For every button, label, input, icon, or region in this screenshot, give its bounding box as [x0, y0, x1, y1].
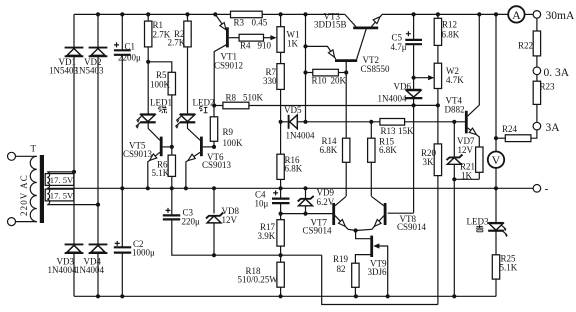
LED LED2 [175, 114, 195, 128]
svg-text:30mA: 30mA [546, 10, 575, 22]
wire C4 bottom to VT7 base [281, 213, 333, 215]
wire lower return [322, 255, 438, 304]
svg-text:3DD15B: 3DD15B [314, 20, 347, 30]
svg-text:6.8K: 6.8K [379, 145, 397, 155]
svg-text:1N5403: 1N5403 [75, 66, 104, 76]
diode VD5 [281, 115, 306, 129]
node bottom rail VD7 [452, 294, 456, 298]
svg-text:17. 5V: 17. 5V [50, 190, 74, 200]
svg-text:510/0.25W: 510/0.25W [238, 275, 279, 285]
resistor R23 [536, 75, 538, 82]
diode VD6 [405, 90, 422, 98]
svg-text:82: 82 [337, 264, 346, 274]
wire primary bottom lead [16, 221, 37, 223]
zener VD9 [298, 188, 314, 213]
node VT5 base R6 junction [170, 145, 174, 149]
transformer T primary terminal top [8, 152, 16, 160]
svg-text:CS9014: CS9014 [303, 226, 333, 236]
diode VD7 zener [447, 122, 463, 180]
terminal minus [533, 185, 541, 193]
label 17.5V upper boxed [45, 174, 74, 186]
node rail C1 [120, 12, 124, 16]
svg-text:1K: 1K [287, 39, 299, 49]
LED LED1 [136, 114, 156, 128]
svg-text:R10: R10 [312, 76, 328, 86]
svg-text:1000μ: 1000μ [132, 248, 155, 258]
resistor R22 [536, 18, 538, 31]
svg-text:CS9012: CS9012 [214, 61, 243, 71]
svg-text:VD5: VD5 [284, 105, 302, 115]
wire ammeter to 30mA terminal [525, 13, 534, 15]
potentiometer W2 [434, 63, 441, 88]
transistor VT8 [356, 196, 414, 230]
transformer T primary winding [30, 156, 37, 221]
resistor R1 [147, 14, 149, 21]
transistor VT3 [345, 14, 382, 28]
svg-text:100K: 100K [150, 80, 171, 90]
svg-text:CS9013: CS9013 [123, 149, 153, 159]
wire primary top lead [16, 155, 37, 157]
node R12 rail [436, 12, 440, 16]
node center rail VT6em [184, 186, 188, 190]
node center rail R16C4 [279, 186, 283, 190]
potentiometer W1 [280, 14, 282, 26]
diode VD3 [65, 244, 84, 253]
wire R21 bottom link [454, 178, 479, 180]
svg-text:R1: R1 [153, 20, 164, 30]
svg-text:17. 5V: 17. 5V [50, 175, 74, 185]
svg-text:3A: 3A [546, 122, 561, 134]
svg-text:1K: 1K [461, 171, 473, 181]
label red char [199, 107, 207, 113]
node bottom tap junction [96, 203, 100, 207]
svg-text:R19: R19 [333, 254, 349, 264]
transformer T core [40, 155, 44, 223]
capacitor C4 [272, 188, 290, 213]
svg-text:12V: 12V [222, 215, 238, 225]
transistor VT7 [334, 196, 356, 230]
resistor R25 [495, 231, 497, 255]
svg-text:R24: R24 [502, 124, 518, 134]
svg-text:R3: R3 [234, 18, 245, 28]
wire VD7 node to bottom rail [453, 179, 455, 296]
node V bottom rail [494, 186, 498, 190]
svg-text:910: 910 [258, 41, 272, 51]
transformer T secondary winding [47, 172, 49, 205]
svg-text:20K: 20K [331, 76, 347, 86]
resistor R5 [148, 62, 172, 73]
svg-text:CS9013: CS9013 [202, 160, 232, 170]
svg-text:-: - [545, 184, 549, 196]
svg-text:A: A [512, 8, 521, 22]
svg-text:2.7K: 2.7K [168, 38, 186, 48]
resistor R18 [280, 255, 282, 262]
resistor R19 [352, 263, 359, 287]
node C4 bottom [279, 212, 283, 216]
node R15 top [369, 120, 373, 124]
svg-text:4.7μ: 4.7μ [391, 42, 407, 52]
wire VT2 emitter column [305, 14, 307, 121]
resistor R4 [239, 34, 263, 41]
diode VD2 [89, 48, 108, 57]
resistor R12 [437, 14, 439, 18]
svg-text:5.1K: 5.1K [500, 263, 518, 273]
wire secondary top tap [48, 171, 75, 173]
node bottom rail C2 [120, 294, 124, 298]
diode VD1 [65, 48, 84, 57]
svg-text:6.8K: 6.8K [320, 145, 338, 155]
resistor R21 [476, 147, 483, 172]
capacitor C1 [114, 14, 131, 188]
svg-text:R22: R22 [518, 41, 533, 51]
node R5 branch [146, 60, 150, 64]
svg-text:LED1: LED1 [150, 98, 172, 108]
wire W2 wiper [414, 77, 430, 79]
svg-text:100K: 100K [223, 138, 244, 148]
capacitor C2 [114, 188, 131, 296]
node C5 rail [412, 12, 416, 16]
node rail VD2 [96, 12, 100, 16]
diode VD4 [89, 244, 108, 253]
resistor R9 [213, 106, 215, 147]
svg-text:R12: R12 [442, 20, 457, 30]
transistor VT1 [214, 14, 239, 105]
node center rail R6C3 [170, 186, 174, 190]
resistor R8 [214, 105, 223, 107]
svg-text:R5: R5 [156, 70, 167, 80]
svg-text:R8: R8 [226, 93, 237, 103]
svg-text:15K: 15K [398, 126, 414, 136]
node bottom rail R19 [354, 294, 358, 298]
resistor R13 [380, 119, 405, 126]
node W2 bottom junction [436, 103, 440, 107]
node R10 left [303, 70, 307, 74]
svg-text:2200μ: 2200μ [118, 52, 141, 62]
node VD8 bottom [212, 253, 216, 257]
svg-text:510K: 510K [243, 93, 264, 103]
svg-text:V: V [492, 153, 501, 167]
resistor R16 [280, 122, 282, 154]
transistor VT5 [148, 122, 172, 188]
terminal 3A [533, 122, 541, 130]
wire VD2 column [97, 14, 99, 296]
svg-text:LED2: LED2 [193, 98, 215, 108]
svg-text:CS9014: CS9014 [397, 222, 427, 232]
svg-text:5.1K: 5.1K [152, 168, 170, 178]
wire top rail left segment [74, 13, 231, 15]
node W2 wiper junction [412, 76, 416, 80]
node center rail VD8 [212, 186, 216, 190]
svg-text:6.2V: 6.2V [317, 197, 335, 207]
node VT6 base R9 junction [212, 145, 216, 149]
wire top rail mid segment [262, 13, 345, 15]
wire C3 bottom to R17 node [172, 219, 322, 255]
ammeter A [508, 6, 524, 22]
svg-text:R13: R13 [381, 126, 397, 136]
svg-text:1N4004: 1N4004 [75, 265, 104, 275]
svg-text:C1: C1 [125, 42, 136, 52]
transistor VT4 [466, 14, 479, 147]
wire VD6 node to W2 bottom [414, 104, 438, 106]
transistor VT9 [355, 231, 387, 297]
svg-text:CS8550: CS8550 [361, 64, 391, 74]
node R8 left junction [212, 103, 216, 107]
resistor R24 [531, 130, 537, 138]
svg-text:3.9K: 3.9K [258, 231, 276, 241]
node center rail VD9 [303, 186, 307, 190]
node VT2 column rail [303, 12, 307, 16]
svg-text:1N4004: 1N4004 [378, 94, 407, 104]
node emitter common [354, 228, 358, 232]
node VD7 top junction [452, 120, 456, 124]
svg-text:3K: 3K [423, 157, 435, 167]
node V column rail [494, 12, 498, 16]
voltmeter column wire [495, 14, 497, 223]
node bottom rail R18 [279, 294, 283, 298]
svg-text:10μ: 10μ [255, 199, 269, 209]
transistor VT6 [186, 122, 214, 188]
svg-text:4.7K: 4.7K [446, 75, 464, 85]
terminal 30mA [533, 11, 541, 19]
svg-text:330: 330 [263, 76, 277, 86]
node VT2 emitter junction [303, 44, 307, 48]
svg-text:VD6: VD6 [394, 82, 412, 92]
transformer T primary terminal bottom [8, 218, 16, 226]
svg-text:6.8K: 6.8K [442, 30, 460, 40]
svg-text:12V: 12V [458, 145, 474, 155]
node VD7 R21 junction [452, 177, 456, 181]
transistor VT2 [306, 29, 367, 73]
resistor R2 [187, 14, 189, 21]
wire VD1 column [73, 14, 75, 296]
wire top rail right segment [382, 13, 508, 15]
node R10 right [344, 70, 348, 74]
svg-text:6.8K: 6.8K [285, 164, 303, 174]
node bottom rail gate [386, 294, 390, 298]
node VT4 collector rail [477, 12, 481, 16]
label yellow char [476, 225, 484, 232]
node rail R2 [185, 12, 189, 16]
svg-text:C5: C5 [392, 33, 403, 43]
node VD5 anode junction [303, 120, 307, 124]
resistor R6 [171, 147, 173, 155]
svg-text:3DJ6: 3DJ6 [368, 267, 388, 277]
zener VD8 [206, 188, 223, 255]
label 17.5V lower boxed [45, 189, 74, 201]
capacitor C3 [163, 188, 180, 219]
label green char [158, 106, 166, 113]
svg-text:1N4004: 1N4004 [286, 131, 315, 141]
svg-text:220V AC: 220V AC [19, 174, 29, 216]
wire center tap rail [48, 187, 534, 189]
node rail R1 [146, 12, 150, 16]
wire VD5 to R13 [306, 121, 380, 123]
svg-text:R9: R9 [223, 127, 234, 137]
svg-text:T: T [31, 144, 37, 154]
svg-text:D882: D882 [445, 105, 465, 115]
svg-text:0. 3A: 0. 3A [544, 67, 570, 79]
node top tap junction [72, 170, 76, 174]
voltmeter V [488, 152, 504, 168]
terminal 0.3A [533, 67, 541, 75]
node VD6 bottom junction [412, 103, 416, 107]
resistor R10 [306, 72, 313, 74]
node VD5 cathode junction [279, 120, 283, 124]
resistor R14 [345, 73, 347, 139]
node R24 junction [494, 136, 498, 140]
node R17 bottom [279, 253, 283, 257]
svg-text:0.45: 0.45 [252, 18, 268, 28]
wire secondary bottom tap [48, 204, 99, 206]
svg-text:R4: R4 [240, 41, 251, 51]
svg-text:1N4004: 1N4004 [48, 265, 77, 275]
node VT1 emitter rail [213, 12, 217, 16]
node bottom rail VD4 [96, 294, 100, 298]
node VD9 bottom [303, 212, 307, 216]
svg-text:LED3: LED3 [467, 217, 489, 227]
resistor R20 [437, 105, 439, 143]
resistor R17 [280, 214, 282, 220]
resistor R7 [280, 52, 282, 63]
node W1 top rail [279, 12, 283, 16]
svg-text:R23: R23 [540, 82, 556, 92]
node center rail VT5em [146, 186, 150, 190]
wire bottom rail [74, 295, 496, 297]
svg-text:220μ: 220μ [182, 216, 201, 226]
capacitor C5 [405, 14, 422, 213]
resistor R15 [370, 122, 372, 138]
LED LED3 [488, 223, 508, 237]
resistor R3 [231, 11, 263, 18]
node center rail C1C2 [120, 186, 124, 190]
